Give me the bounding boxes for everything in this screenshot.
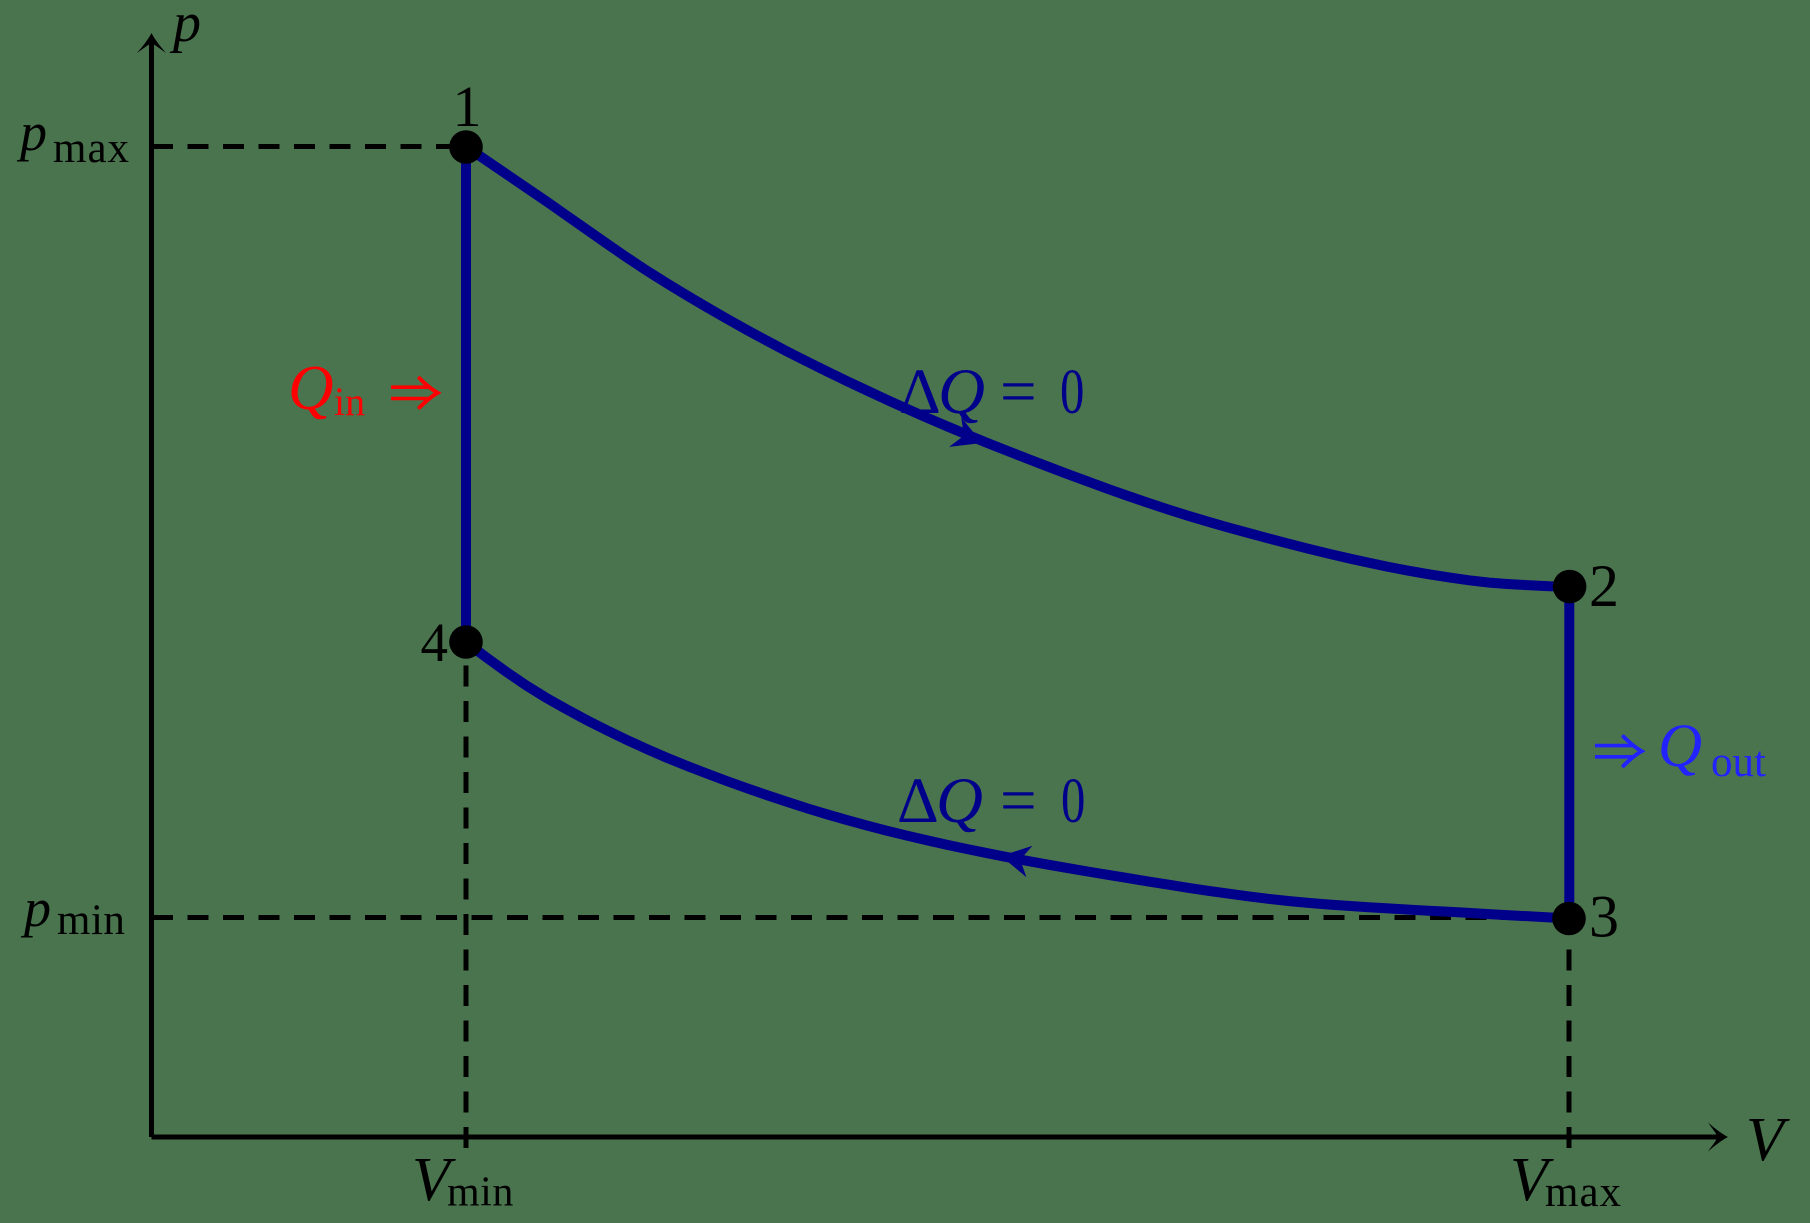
arrowhead on adiabat 3-4 — [998, 840, 1033, 877]
svg-text:0: 0 — [1061, 765, 1085, 836]
svg-text:Q: Q — [1658, 713, 1702, 780]
dashed guide V_max — [1567, 922, 1572, 1148]
svg-text:=: = — [1000, 765, 1037, 837]
svg-text:Q: Q — [288, 353, 334, 423]
isochore 4-1 (V_min) — [461, 147, 471, 643]
adiabat 3-4 — [466, 642, 1569, 919]
svg-text:1: 1 — [453, 74, 482, 139]
svg-text:p: p — [20, 878, 51, 938]
p axis — [149, 40, 154, 1137]
svg-text:0: 0 — [1060, 356, 1084, 427]
svg-text:Q: Q — [936, 765, 983, 837]
svg-text:p: p — [169, 0, 201, 54]
state point 3 — [1552, 902, 1586, 936]
blue double arrow — [1595, 737, 1642, 766]
svg-text:p: p — [16, 102, 47, 162]
state point 2 — [1553, 570, 1587, 604]
dashed guide V_min — [464, 646, 469, 1148]
svg-text:4: 4 — [421, 612, 449, 673]
svg-text:Δ: Δ — [897, 765, 939, 837]
svg-text:max: max — [1545, 1169, 1622, 1216]
svg-text:=: = — [1000, 356, 1037, 428]
isochore 2-3 (V_max) — [1564, 587, 1574, 919]
svg-text:V: V — [1746, 1106, 1790, 1174]
adiabat 1-2 — [466, 147, 1570, 587]
state point 4 — [449, 625, 483, 659]
svg-text:in: in — [334, 379, 365, 424]
svg-text:min: min — [447, 1170, 514, 1216]
state point 1 — [449, 130, 483, 164]
svg-text:Q: Q — [938, 356, 985, 428]
V axis — [152, 1135, 1722, 1140]
svg-text:3: 3 — [1589, 884, 1619, 950]
svg-text:out: out — [1711, 739, 1766, 786]
svg-text:2: 2 — [1589, 553, 1619, 619]
svg-text:min: min — [57, 897, 125, 944]
svg-text:max: max — [53, 125, 130, 172]
dashed guide p_min — [152, 915, 1569, 920]
svg-text:Δ: Δ — [899, 356, 941, 428]
dashed guide p_max — [152, 144, 466, 149]
arrowhead on adiabat 1-2 — [949, 417, 988, 458]
red double arrow — [391, 378, 438, 407]
